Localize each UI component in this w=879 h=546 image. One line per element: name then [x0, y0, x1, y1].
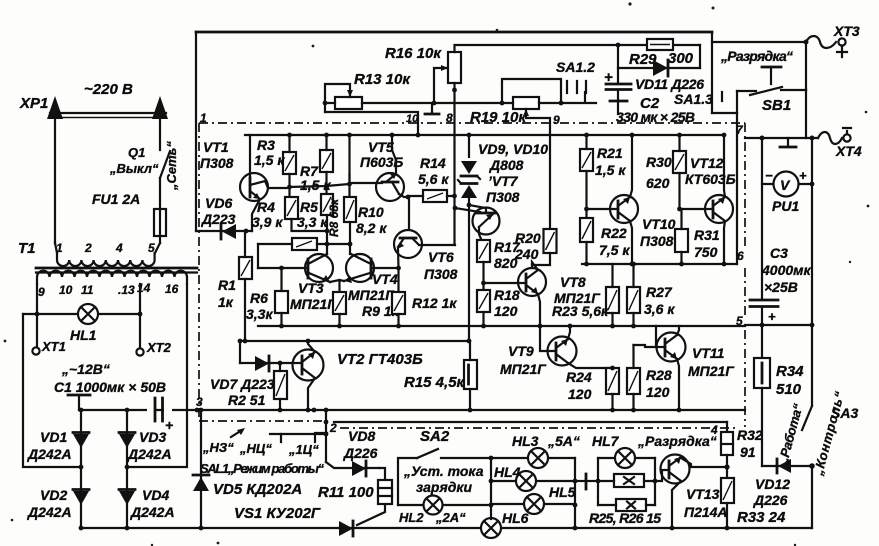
svg-text:VT6: VT6 — [428, 249, 454, 265]
switch Q1 — [160, 151, 170, 178]
terminal XT2 — [136, 348, 143, 355]
R19 wiper to pin 9 — [526, 109, 550, 229]
lamp HL2 — [398, 504, 491, 506]
svg-text:240: 240 — [514, 246, 539, 262]
svg-text:R28: R28 — [646, 367, 672, 383]
resistor R23 — [606, 287, 619, 313]
svg-text:HL4: HL4 — [494, 464, 521, 480]
svg-text:„НЦ“: „НЦ“ — [239, 441, 272, 456]
VT9 collector up — [568, 326, 570, 339]
VT11 base wire — [656, 326, 665, 347]
svg-text:HL3: HL3 — [512, 433, 539, 449]
R13 wiper arm — [325, 84, 350, 112]
resistor R7 — [320, 150, 333, 172]
plug pin arrow right — [159, 120, 161, 150]
svg-text:VD11 Д226: VD11 Д226 — [635, 76, 704, 92]
resistor R30 — [673, 151, 686, 173]
svg-text:R5: R5 — [300, 199, 318, 215]
svg-text:Т1: Т1 — [18, 240, 36, 257]
svg-text:SA1.2: SA1.2 — [556, 59, 595, 75]
svg-text:Д242А: Д242А — [127, 446, 172, 462]
svg-text:Д242А: Д242А — [130, 504, 175, 520]
node rail 3 (C1 output rail) — [79, 409, 745, 411]
outer box top edge — [196, 31, 712, 34]
wire SA1.1 common — [281, 433, 326, 435]
svg-text:R12 1к: R12 1к — [412, 295, 457, 311]
svg-text:4: 4 — [115, 241, 123, 255]
VS1 gate from R11 — [357, 504, 385, 525]
svg-text:5,6 к: 5,6 к — [418, 171, 449, 187]
VT3 base wire — [258, 267, 308, 269]
plug pin arrow left — [54, 120, 56, 243]
svg-text:7,5 к: 7,5 к — [599, 242, 630, 258]
potentiometer R13 — [335, 97, 362, 109]
potentiometer R16 — [448, 52, 461, 83]
wire SB1 down to XT4 rail — [805, 90, 807, 138]
svg-text:VD8: VD8 — [348, 428, 375, 444]
capacitor C3 — [761, 184, 763, 299]
resistor R11 — [379, 468, 385, 480]
resistor R15 — [464, 360, 477, 389]
R34 leg down to VD12 wire — [761, 388, 763, 466]
svg-text:С3: С3 — [770, 245, 788, 261]
svg-text:620: 620 — [646, 175, 670, 191]
transistor VT13 — [661, 455, 690, 484]
VT7 emitter to R17 — [479, 227, 482, 240]
svg-text:120: 120 — [494, 303, 518, 319]
resistor R4 — [285, 197, 298, 219]
svg-text:„Сеть“: „Сеть“ — [164, 141, 179, 191]
resistor R14 — [423, 190, 447, 202]
potentiometer R19 — [513, 97, 539, 109]
resistor R5 — [321, 194, 333, 215]
svg-text:~220 В: ~220 В — [84, 81, 133, 98]
wire tap 9 down to XT1 — [36, 284, 38, 347]
svg-text:„2А“: „2А“ — [435, 510, 466, 525]
svg-text:.13: .13 — [118, 283, 135, 297]
VT12 collector up — [724, 135, 725, 197]
VT11 emitter wire — [677, 359, 679, 410]
bottom rail — [81, 527, 812, 529]
top internal rail (node 10) — [245, 134, 724, 136]
svg-text:R18: R18 — [494, 287, 520, 303]
svg-text:Д242А: Д242А — [27, 446, 72, 462]
svg-text:R21: R21 — [597, 145, 623, 161]
VT7 collector wire — [455, 208, 480, 212]
svg-text:XT1: XT1 — [41, 339, 66, 354]
svg-text:R3: R3 — [257, 137, 275, 153]
svg-text:XT3: XT3 — [833, 23, 860, 39]
svg-text:120: 120 — [568, 386, 592, 402]
svg-text:SA2: SA2 — [420, 428, 450, 445]
dash-dot unit boundary top — [199, 122, 745, 124]
dash-dot unit boundary left — [198, 123, 200, 421]
R19 upper loop wire — [502, 79, 561, 103]
SEC_BRIDGE — [27, 395, 812, 530]
lamp HL4 — [491, 480, 575, 482]
svg-text:11: 11 — [81, 283, 94, 297]
SEC_TRANSFORMER — [18, 240, 197, 467]
diode VD7 — [240, 362, 302, 364]
VT1 collector wire — [250, 181, 290, 188]
VT4 base wire — [371, 267, 399, 269]
SA1.1 contact 1Ц — [315, 433, 327, 442]
svg-text:„НЗ“: „НЗ“ — [202, 440, 234, 455]
svg-text:R32: R32 — [737, 427, 763, 443]
svg-text:9: 9 — [553, 113, 560, 127]
lamp HL3 — [491, 457, 575, 459]
VT13 base wire — [655, 470, 669, 481]
SEC_UNITFRAME — [196, 23, 860, 437]
resistor R2 — [274, 371, 287, 399]
svg-text:4000мк: 4000мк — [761, 262, 812, 278]
svg-text:9: 9 — [38, 285, 45, 299]
resistor R24 — [606, 368, 619, 394]
svg-text:П308: П308 — [486, 189, 520, 205]
wire R29 right corner — [699, 45, 701, 68]
svg-text:VT8: VT8 — [560, 274, 586, 290]
svg-text:VT2 ГТ403Б: VT2 ГТ403Б — [337, 351, 423, 368]
svg-text:VT3: VT3 — [298, 280, 324, 296]
resistor R33 — [721, 478, 734, 503]
resistor R12 — [392, 292, 405, 314]
VT10 collector up — [630, 135, 632, 197]
svg-text:Д242А: Д242А — [27, 504, 72, 520]
dash-dot unit boundary bottom — [199, 421, 738, 428]
svg-text:91: 91 — [740, 444, 756, 460]
resistor R31 — [675, 229, 688, 252]
HL7 block left connector — [575, 480, 584, 482]
svg-text:Д226: Д226 — [343, 445, 378, 461]
svg-text:R15 4,5к: R15 4,5к — [404, 374, 466, 391]
svg-text:1,5 к: 1,5 к — [300, 177, 331, 193]
svg-text:R24: R24 — [566, 369, 592, 385]
svg-text:510: 510 — [776, 381, 802, 398]
zener VD10 — [461, 185, 477, 198]
wire tap 16 down to bridge — [127, 284, 187, 467]
break squiggle XT4 — [818, 132, 842, 144]
primary winding coils — [57, 253, 155, 266]
svg-text:П214А: П214А — [684, 504, 728, 520]
svg-text:R19 10к: R19 10к — [470, 109, 527, 126]
diode VD6 — [196, 230, 252, 232]
svg-text:R8 68к: R8 68к — [327, 198, 341, 237]
resistor R26 — [616, 499, 646, 511]
svg-text:VT10: VT10 — [642, 216, 676, 232]
R19 right wire — [539, 92, 596, 103]
svg-text:R33 24: R33 24 — [737, 509, 786, 526]
svg-text:VD3: VD3 — [139, 429, 166, 445]
svg-text:„Выкл“: „Выкл“ — [109, 161, 159, 176]
transistor VT3 — [305, 254, 333, 282]
junction rail3 / VT2 column — [312, 408, 317, 413]
wire rail to VT5 base node — [348, 135, 350, 197]
svg-text:„Уст. тока: „Уст. тока — [403, 463, 484, 479]
resistor R1 — [239, 257, 252, 279]
switch SA1.2 contacts — [567, 81, 586, 93]
HL7 block frame — [598, 458, 655, 505]
capacitor C1 — [147, 404, 154, 416]
diode VD1 — [73, 434, 89, 448]
rail node 5 left part — [258, 325, 745, 327]
svg-text:R11 100: R11 100 — [318, 484, 374, 501]
svg-text:VD7 Д223: VD7 Д223 — [210, 376, 275, 392]
dash-dot unit boundary right — [744, 123, 746, 427]
rail VT2 emitter — [240, 340, 469, 342]
R16 wiper arm — [434, 68, 446, 103]
svg-text:VD1: VD1 — [40, 429, 67, 445]
svg-text:VT13: VT13 — [686, 486, 720, 502]
svg-text:750: 750 — [694, 244, 718, 260]
VT3 VT4 emitters join — [330, 280, 344, 292]
VT13 collector down — [672, 481, 681, 528]
lamp HL1 — [23, 313, 140, 315]
svg-text:FU1 2А: FU1 2А — [92, 191, 140, 207]
svg-text:R16 10к: R16 10к — [385, 45, 442, 62]
svg-text:XT4: XT4 — [835, 143, 862, 159]
svg-text:1: 1 — [200, 111, 207, 125]
voltmeter PU1 — [762, 138, 812, 184]
SEC_BOTTOM — [481, 422, 815, 538]
svg-text:+: + — [799, 168, 807, 183]
push button SB1 — [805, 42, 807, 90]
diode VD12 — [762, 465, 812, 467]
R20 bottom to VT8 collector — [532, 253, 550, 268]
svg-text:1,5 к: 1,5 к — [254, 152, 285, 168]
node R32/R33 — [726, 455, 728, 478]
resistor R8 — [344, 197, 356, 222]
svg-text:R4: R4 — [257, 199, 275, 215]
svg-text:VT1: VT1 — [203, 139, 229, 155]
svg-text:10: 10 — [59, 283, 73, 297]
VT5 base wire — [350, 174, 383, 183]
lamp HL5 — [491, 503, 575, 505]
VT8 collector wire — [532, 262, 538, 270]
svg-text:Д808: Д808 — [489, 157, 524, 173]
SA1.1 contact НЦ — [270, 434, 281, 442]
VT10 base wire — [587, 208, 619, 210]
svg-text:П308: П308 — [200, 155, 234, 171]
control box outline — [398, 458, 491, 505]
svg-text:Д226: Д226 — [753, 492, 788, 508]
svg-text:HL7: HL7 — [592, 433, 620, 449]
wire R16 bottom to pin 8 — [453, 83, 455, 90]
svg-text:XP1: XP1 — [19, 95, 48, 112]
VT12 base wire — [680, 208, 714, 210]
wire tap 14 down to XT2 — [139, 284, 141, 348]
svg-text:Q1: Q1 — [128, 145, 145, 160]
svg-text:VT9: VT9 — [508, 343, 534, 359]
svg-text:330 мк × 25В: 330 мк × 25В — [616, 109, 695, 125]
svg-text:SA3: SA3 — [831, 405, 858, 421]
svg-text:R1: R1 — [218, 277, 236, 293]
svg-text:120: 120 — [646, 384, 670, 400]
SA1.1 contact НЗ — [231, 430, 242, 437]
svg-text:3,3к: 3,3к — [246, 306, 273, 322]
svg-text:R20: R20 — [515, 230, 541, 246]
svg-text:R13 10к: R13 10к — [354, 71, 411, 88]
svg-text:−: − — [765, 168, 773, 183]
svg-text:„1Ц“: „1Ц“ — [288, 442, 319, 457]
wire HL1 left leg down to bridge — [23, 314, 81, 467]
svg-text:МП21Г: МП21Г — [688, 363, 735, 379]
outer box left edge / wire to VD6 — [195, 32, 197, 231]
XT4 rail — [745, 137, 818, 139]
svg-text:R14: R14 — [420, 155, 446, 171]
bridge left leg — [80, 410, 82, 528]
transistor VT4 — [346, 254, 374, 282]
wire VT5 emitter to VT6 — [408, 197, 410, 230]
svg-text:VT12: VT12 — [690, 155, 724, 171]
R28 top to VT11 base — [634, 345, 657, 347]
VT12 emitter down — [724, 221, 725, 264]
thyristor VS1 — [339, 521, 353, 536]
zener VD9 — [468, 135, 470, 341]
transistor VT1 — [240, 173, 268, 201]
svg-text:„5А“: „5А“ — [547, 433, 580, 449]
svg-text:МП21Г: МП21Г — [348, 287, 395, 303]
svg-text:МП21Г: МП21Г — [500, 361, 547, 377]
diode VD8 — [326, 462, 379, 468]
svg-text:1к: 1к — [218, 294, 234, 310]
svg-text:VD5 КД202А: VD5 КД202А — [213, 481, 302, 498]
wire primary to plug — [55, 243, 160, 253]
resistor R22 — [580, 218, 593, 242]
plug bar (double line) — [50, 112, 166, 114]
resistor R27 — [627, 287, 640, 313]
junction tap-HL1 — [35, 312, 40, 317]
svg-text:’VT7: ’VT7 — [488, 173, 519, 189]
svg-text:МП21Г: МП21Г — [290, 296, 337, 312]
lamp HL7 — [598, 457, 655, 459]
resistor R6 — [275, 291, 288, 313]
rail node 6 — [582, 263, 737, 265]
horizontal resistor R10 — [292, 238, 317, 250]
transistor VT12 — [705, 195, 733, 223]
transistor VT10 — [610, 195, 638, 223]
resistor R17 — [477, 240, 490, 262]
wire R13 left-bottom to pin 10 — [325, 112, 418, 135]
svg-text:HL1: HL1 — [70, 327, 97, 343]
resistor R9 — [333, 292, 346, 314]
VT6 collector wire — [419, 244, 455, 246]
lamp ladder left column — [490, 458, 492, 519]
svg-text:VS1 КУ202Г: VS1 КУ202Г — [234, 505, 321, 522]
transistor VT7 — [467, 203, 472, 208]
svg-text:R25, R26 15: R25, R26 15 — [589, 510, 661, 526]
VT9 base wire — [540, 326, 556, 351]
svg-text:П308: П308 — [640, 233, 674, 249]
VT11 collector up — [677, 326, 679, 335]
VT5 emitter wire — [399, 194, 408, 197]
VT2 emitter up — [308, 341, 315, 352]
svg-text:„~12В“: „~12В“ — [61, 361, 110, 377]
diode VD11 — [618, 67, 700, 69]
svg-text:R27: R27 — [646, 284, 673, 300]
svg-text:R10: R10 — [358, 204, 384, 220]
VT2 collector down — [308, 378, 315, 410]
VT1 emitter wire — [250, 191, 260, 199]
svg-text:R23 5,6к: R23 5,6к — [552, 303, 609, 319]
bridge right leg — [126, 410, 128, 467]
svg-text:VD6: VD6 — [205, 195, 232, 211]
ground symbol near pin 8 — [431, 103, 433, 113]
transformer core (double line) — [36, 267, 197, 270]
svg-text:3,6 к: 3,6 к — [644, 301, 675, 317]
svg-text:R2 51: R2 51 — [228, 392, 266, 408]
svg-text:„Разрядка“: „Разрядка“ — [720, 48, 793, 64]
svg-text:Д223: Д223 — [201, 211, 236, 227]
ground tee on filter rail — [78, 396, 80, 410]
SEC_UNITMID — [210, 133, 737, 413]
SEC_UNITTOP — [196, 133, 745, 344]
VT5 collector wire — [392, 135, 396, 174]
svg-text:„Разрядка“: „Разрядка“ — [637, 433, 717, 449]
svg-text:HL5: HL5 — [549, 484, 576, 500]
wire R29 top — [617, 45, 619, 82]
transistor VT6 — [394, 230, 422, 258]
terminal XT1 — [32, 347, 39, 354]
svg-text:3,9 к: 3,9 к — [252, 214, 283, 230]
transistor VT8 — [518, 268, 546, 296]
resistor R3 — [283, 152, 296, 174]
svg-text:R34: R34 — [776, 363, 804, 380]
svg-text:R29: R29 — [629, 51, 657, 68]
svg-text:+: + — [768, 309, 776, 324]
svg-text:2: 2 — [84, 241, 92, 255]
VT6 emitter to R12 — [397, 249, 400, 292]
break squiggle XT3 — [806, 36, 836, 48]
svg-text:SB1: SB1 — [762, 97, 791, 114]
svg-text:VT5: VT5 — [368, 139, 394, 155]
svg-text:VD9, VD10: VD9, VD10 — [478, 141, 548, 157]
SEC_UNITLOW — [193, 408, 727, 536]
svg-text:VT11: VT11 — [692, 345, 725, 361]
resistor R29 — [647, 39, 673, 50]
diode VD3 — [119, 434, 135, 448]
svg-text:R31: R31 — [694, 227, 720, 243]
wire pin2 to R32 column — [334, 421, 727, 423]
wire R16 top rail — [455, 45, 701, 52]
SEC_TOPCONTROL — [323, 39, 806, 264]
terminal XT3 — [838, 38, 845, 45]
transistor VT9 — [548, 337, 577, 366]
resistor R18 — [477, 290, 490, 312]
svg-text:8,2 к: 8,2 к — [356, 220, 387, 236]
VT10 emitter down — [630, 221, 632, 264]
svg-text:VT4: VT4 — [372, 271, 398, 287]
svg-text:3: 3 — [196, 395, 203, 409]
svg-text:8: 8 — [446, 111, 453, 125]
svg-text:16: 16 — [165, 282, 179, 296]
secondary winding coils — [37, 271, 187, 284]
SEC_RIGHT — [745, 128, 862, 528]
svg-text:R22: R22 — [601, 225, 627, 241]
svg-text:PU1: PU1 — [772, 198, 799, 214]
svg-text:КТ603Б: КТ603Б — [685, 171, 736, 187]
svg-text:SA1.3: SA1.3 — [674, 91, 713, 107]
svg-text:зарядки: зарядки — [416, 479, 472, 495]
svg-text:VD4: VD4 — [142, 487, 169, 503]
resistor R20 — [544, 229, 557, 253]
junction bridge legs on rail — [79, 408, 84, 413]
diode VD5 — [200, 410, 202, 528]
lamp ladder right column — [574, 458, 576, 528]
transistor VT5 — [376, 173, 404, 201]
resistor R34 — [761, 325, 763, 358]
VT9 emitter wire — [568, 363, 613, 368]
svg-text:1,5 к: 1,5 к — [595, 162, 626, 178]
